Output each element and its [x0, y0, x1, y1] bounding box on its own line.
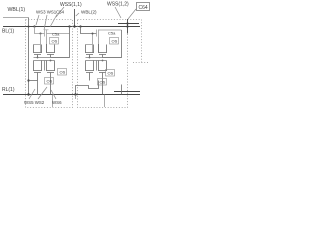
- cell box MC(1,1) dashed: [26, 20, 73, 108]
- wire upper left link cell1: [34, 44, 41, 46]
- wire right branch cell2: [103, 30, 122, 58]
- wire right down to H3 cell2: [121, 85, 123, 95]
- transistor WS4 (row A right): [46, 44, 55, 58]
- plate at H3 right end: [114, 91, 140, 93]
- transistor WS6 (row B right): [46, 61, 55, 95]
- wire tap down cell1: [35, 27, 45, 34]
- junction V1-H3: [27, 93, 29, 95]
- leader WS2: [38, 87, 47, 99]
- wire cross couple upper cell1: [34, 57, 70, 59]
- svg-text:OS: OS: [100, 80, 106, 85]
- wire WBL(1) vertical column V1: [28, 18, 30, 95]
- transistor WS3 (row A left): [33, 45, 42, 58]
- wire output path cell2 to V2: [76, 81, 99, 95]
- wire WS1 gate down cell1: [46, 37, 48, 53]
- wire WBL(2) vertical column V2: [74, 9, 76, 27]
- wire right branch cell1: [51, 27, 70, 58]
- transistor WS3': [85, 45, 94, 58]
- svg-text:WBL(1): WBL(1): [8, 7, 26, 13]
- transistor WS1' channel bar: [98, 30, 100, 37]
- junction gate WS3': [89, 57, 91, 59]
- svg-text:WBL(2): WBL(2): [81, 10, 97, 15]
- svg-text:C5a: C5a: [52, 32, 60, 37]
- junction gate WS4: [50, 60, 52, 62]
- transistor WS1 gate bar: [44, 30, 46, 37]
- leader WS3: [36, 15, 39, 25]
- label OS boxed (row B left): [45, 78, 54, 85]
- wire WS1 drain right: [47, 33, 70, 35]
- leader WSS(1,1): [56, 7, 64, 17]
- svg-text:WS6: WS6: [52, 100, 62, 105]
- wire output to V1 cell1: [29, 80, 38, 82]
- leader C64: [128, 9, 136, 19]
- junction BL tap cell1: [33, 25, 35, 27]
- wire tap down cell2: [81, 27, 97, 34]
- capacitor plate at H2 right end: [118, 23, 139, 25]
- wire node down cell2: [92, 34, 94, 53]
- junction BL tap cell2: [79, 25, 81, 27]
- svg-text:BL(1): BL(1): [2, 29, 15, 35]
- junction V1-H2: [28, 26, 30, 28]
- leader WSS(1,2): [115, 7, 121, 18]
- wire node down cell1: [40, 34, 42, 53]
- junction node cell2: [92, 33, 94, 35]
- transistor WS1' gate bar: [96, 30, 98, 37]
- leader WBL(2): [76, 13, 79, 16]
- stub below H3 cell1: [52, 95, 54, 108]
- wire upper left link cell2: [86, 44, 93, 46]
- svg-text:OS: OS: [52, 39, 58, 44]
- label C64 boxed: [137, 3, 150, 11]
- svg-text:RL(1): RL(1): [2, 87, 15, 93]
- wire mid vertical cell1: [44, 61, 46, 71]
- label OS boxed (row B right) cell2: [106, 70, 115, 77]
- junction x127 upper: [126, 22, 128, 24]
- transistor WS4': [98, 44, 107, 58]
- svg-text:WSS(1,2): WSS(1,2): [107, 2, 129, 8]
- wire WS1' gate down cell2: [98, 37, 100, 53]
- dotted continuation segment right: [133, 62, 149, 64]
- junction gate WS4': [102, 60, 104, 62]
- wire cross couple upper cell2: [86, 57, 122, 59]
- junction node cell1: [40, 33, 42, 35]
- wire cross couple lower cell2: [86, 60, 107, 62]
- leader WS1: [44, 15, 47, 30]
- stub below H3 cell2: [104, 95, 106, 108]
- svg-text:OS: OS: [47, 79, 53, 84]
- svg-text:OS: OS: [60, 70, 66, 75]
- transistor WS1 channel bar: [46, 30, 48, 37]
- wire WS5 source down: [37, 81, 39, 95]
- svg-text:C64: C64: [139, 5, 148, 11]
- transistor WS5 (row B left): [33, 61, 42, 81]
- label OS boxed (write tr) cell2: [110, 38, 119, 45]
- svg-text:C5a: C5a: [108, 31, 116, 36]
- wire WBL(1) horizontal stub: [3, 17, 29, 19]
- stub V2 below H3: [75, 95, 77, 100]
- junction V2-H2: [73, 25, 75, 27]
- svg-text:WS3 WS1: WS3 WS1: [36, 10, 57, 15]
- wire cross couple lower cell1: [34, 60, 55, 62]
- svg-text:OS: OS: [108, 71, 114, 76]
- junction gate WS3: [37, 57, 39, 59]
- transistor WS1 top tick: [45, 29, 49, 31]
- svg-text:C54: C54: [56, 10, 65, 15]
- wire mid vertical cell2: [96, 61, 98, 71]
- transistor WS5': [85, 61, 94, 81]
- cell box MC(1,2) dashed: [78, 20, 128, 108]
- wire RL(1) row line H3: [3, 94, 140, 96]
- leader WS5: [29, 89, 35, 99]
- junction V1 output: [27, 79, 29, 81]
- junction x127 lower: [126, 25, 128, 27]
- svg-text:WS5 WS2: WS5 WS2: [24, 100, 45, 105]
- transistor WS6': [98, 61, 107, 95]
- label OS boxed (row B left) cell2: [98, 79, 107, 86]
- label OS boxed (write tr): [50, 38, 59, 45]
- junction V2-H3: [74, 93, 76, 95]
- svg-text:OS: OS: [112, 39, 118, 44]
- svg-text:WSS(1,1): WSS(1,1): [60, 2, 82, 8]
- leader C54: [50, 15, 57, 28]
- wire BL(1) row line H2: [3, 26, 140, 28]
- dashed corner top right: [128, 20, 142, 63]
- junction right branch H2 cell1: [68, 25, 70, 27]
- wire WS1' drain right: [99, 29, 122, 31]
- leader WS6: [51, 90, 56, 99]
- wire vertical at x127 top right: [127, 19, 129, 34]
- label OS boxed (row B right): [58, 69, 67, 76]
